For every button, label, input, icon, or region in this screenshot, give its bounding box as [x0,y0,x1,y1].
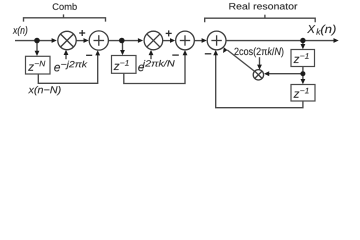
wire resonator feedback comb z^-1 to adder2 minus [124,55,185,84]
junction dot at x(n) tap [34,38,40,44]
sign plus at adder1 input [79,32,85,34]
junction dot between z^-1 A and B [300,71,305,76]
wire tap between delays to multiplier3 [268,73,303,75]
wire comb feedback z^-N to adder1 minus [38,55,97,84]
wire e^j2pik/N constant stub into multiplier2 [150,55,152,60]
arrowhead into multiplier1 [52,38,57,43]
arrowhead into z^-1 B top [301,79,306,84]
sign plus at adder2 input [166,32,172,34]
label Xk(n) k sub [316,28,321,34]
arrowhead diagonal into adder3 lower-right [223,47,228,53]
label sup -1 boxB [300,88,308,94]
wire multiplier1 to adder1 [76,40,84,42]
label 2cos(2pik/N) [235,47,284,57]
label z boxA [294,57,300,63]
multiplier M1 circle with X [58,31,76,49]
arrowhead into multiplier1 bottom stub [64,50,69,55]
wire input x(n) [15,40,53,42]
wire node tap down to comb z^-1 [122,41,124,51]
wire z^-1 B loop to adder3 minus [216,55,303,108]
wire adder1 to multiplier2 [108,40,138,42]
delay box resonator z^-1 B [291,85,315,102]
adder A1 circle with plus [89,31,108,50]
arrowhead into adder2 [170,38,175,43]
wire node tap down to z^-N [36,41,38,52]
label sup -1 comb [120,60,128,66]
arrowhead into adder1 bottom minus [95,50,100,55]
multiplier M3 circle with X [253,70,263,80]
wire 2cos constant stub into multiplier3 [259,57,261,66]
label sup j2pik/N [142,60,175,68]
comb section bracket [24,18,106,22]
arrowhead output end [334,38,339,43]
arrowhead into adder2 bottom minus [183,50,188,55]
wire e^-j2pik constant stub into multiplier1 [65,55,67,60]
arrowhead into comb z^-1 top [120,50,125,55]
junction dot at output tap [300,38,305,43]
arrowhead into multiplier2 bottom stub [149,50,154,55]
wire output to Xk(n) [226,40,335,42]
label Real resonator [229,3,297,10]
arrowhead into multiplier3 top [257,65,262,70]
arrowhead into z^-N top [35,51,40,56]
label Xk(n) (n) [321,25,336,36]
adder A2 circle with plus [176,31,195,50]
sign minus at adder3 feedback [205,53,212,55]
label z comb [114,64,120,70]
label sup -j2pik [61,61,87,69]
label z boxB [294,92,300,98]
delay box z^-N [26,56,51,74]
label x(n) [13,26,28,36]
label sup -1 boxA [300,53,308,59]
sign minus at adder1 feedback [86,54,92,56]
label e 1 [54,65,60,72]
label Comb [53,3,77,10]
label e 2 [138,65,144,72]
wire z^-1 A to z^-1 B [302,67,304,81]
real resonator section bracket [205,18,316,22]
arrowhead into adder3 bottom minus [213,50,218,55]
wire node tap down to resonator z^-1 A [302,41,304,46]
delay box comb z^-1 [112,56,137,74]
arrowhead into multiplier3 right [264,71,269,76]
multiplier M2 circle with X [144,31,163,50]
label sup -N [35,61,46,67]
wire adder2 to adder3 [194,40,202,42]
delay box resonator z^-1 A [291,50,315,67]
arrowhead into z^-1 A top [301,44,306,49]
arrowhead into multiplier2 [138,38,143,43]
label z of z^-N [28,65,34,71]
sign minus at adder2 feedback [172,54,179,56]
arrowhead into adder3 [202,38,207,43]
arrowhead into adder1 [84,38,89,43]
label Xk(n) X [307,25,315,33]
junction dot after adder1 [119,38,125,44]
wire multiplier3 diagonal to adder3 [227,50,255,72]
label x(n-N) [28,86,61,95]
wire multiplier2 to adder2 [163,40,171,42]
adder A3 circle with plus [207,31,226,50]
